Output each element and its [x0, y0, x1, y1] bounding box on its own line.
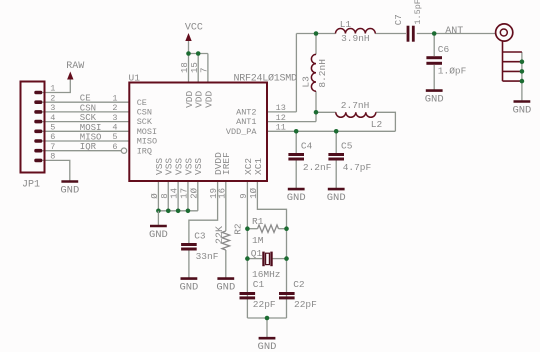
svg-text:3.9nH: 3.9nH	[341, 33, 370, 44]
svg-text:GND: GND	[149, 229, 168, 241]
svg-text:14: 14	[170, 188, 180, 199]
svg-text:C3: C3	[194, 230, 206, 241]
svg-text:MISO: MISO	[137, 137, 157, 147]
svg-text:GND: GND	[216, 282, 235, 294]
svg-text:ANT2: ANT2	[236, 108, 256, 118]
svg-text:GND: GND	[425, 94, 444, 106]
svg-text:8: 8	[160, 193, 170, 198]
svg-text:18: 18	[180, 62, 190, 73]
svg-text:1Ø: 1Ø	[249, 187, 259, 198]
svg-text:CSN: CSN	[137, 108, 152, 118]
svg-text:Ø: Ø	[150, 193, 160, 199]
svg-text:1: 1	[50, 84, 55, 94]
svg-text:C2: C2	[293, 279, 305, 290]
svg-text:22pF: 22pF	[253, 299, 276, 310]
svg-text:XC1: XC1	[253, 158, 264, 175]
svg-text:15: 15	[190, 62, 200, 73]
svg-text:MOSI: MOSI	[80, 123, 102, 133]
svg-text:IRQ: IRQ	[137, 146, 152, 156]
svg-text:SCK: SCK	[80, 113, 97, 123]
svg-text:6: 6	[50, 132, 55, 142]
svg-text:VSS: VSS	[193, 158, 204, 175]
svg-text:7: 7	[50, 142, 55, 152]
svg-text:2: 2	[112, 103, 117, 113]
svg-text:3: 3	[112, 113, 117, 123]
svg-text:VCC: VCC	[185, 22, 203, 33]
svg-text:VDD_PA: VDD_PA	[226, 127, 258, 137]
svg-text:R2: R2	[232, 223, 243, 235]
svg-text:3: 3	[50, 103, 55, 113]
svg-text:R1: R1	[252, 216, 264, 227]
svg-text:22K: 22K	[215, 226, 226, 244]
svg-text:6: 6	[112, 142, 117, 152]
svg-text:GND: GND	[179, 282, 198, 294]
svg-text:CSN: CSN	[80, 103, 96, 113]
svg-text:C1: C1	[253, 279, 265, 290]
svg-text:L1: L1	[340, 19, 352, 30]
svg-text:1.5pF: 1.5pF	[413, 0, 423, 25]
svg-text:SCK: SCK	[137, 117, 153, 127]
svg-text:4: 4	[50, 113, 55, 123]
svg-text:GND: GND	[60, 185, 79, 197]
svg-text:8.2nH: 8.2nH	[317, 59, 328, 88]
svg-text:JP1: JP1	[22, 180, 40, 191]
svg-text:VDD: VDD	[203, 90, 214, 107]
svg-text:1.ØpF: 1.ØpF	[438, 66, 467, 77]
svg-text:IREF: IREF	[221, 152, 232, 175]
svg-text:5: 5	[50, 123, 55, 133]
svg-text:C5: C5	[341, 141, 353, 152]
svg-text:8: 8	[50, 152, 55, 162]
svg-text:MISO: MISO	[80, 133, 102, 143]
svg-text:1M: 1M	[252, 235, 264, 246]
svg-text:GND: GND	[287, 192, 306, 204]
svg-text:CE: CE	[80, 94, 91, 104]
svg-text:GND: GND	[327, 192, 346, 204]
svg-text:Q1: Q1	[251, 248, 263, 259]
svg-text:2Ø: 2Ø	[189, 187, 199, 198]
svg-text:11: 11	[276, 123, 286, 133]
svg-text:RAW: RAW	[66, 61, 84, 72]
svg-text:C7: C7	[394, 14, 404, 25]
svg-text:12: 12	[276, 113, 286, 123]
svg-text:4.7pF: 4.7pF	[343, 162, 372, 173]
svg-text:9: 9	[239, 193, 249, 198]
svg-text:4: 4	[112, 123, 117, 133]
svg-text:C6: C6	[438, 44, 450, 55]
svg-text:2.2nF: 2.2nF	[303, 162, 332, 173]
svg-text:2.7nH: 2.7nH	[341, 100, 370, 111]
svg-text:GND: GND	[512, 105, 531, 117]
svg-text:16: 16	[217, 188, 227, 199]
svg-text:L3: L3	[301, 76, 312, 88]
svg-text:C4: C4	[301, 141, 313, 152]
svg-text:ANT: ANT	[445, 26, 463, 37]
svg-text:7: 7	[200, 68, 210, 73]
svg-text:U1: U1	[129, 72, 141, 83]
svg-text:2: 2	[50, 93, 55, 103]
svg-text:17: 17	[180, 188, 190, 199]
svg-text:5: 5	[112, 132, 117, 142]
svg-text:MOSI: MOSI	[137, 127, 157, 137]
svg-text:L2: L2	[371, 119, 383, 130]
svg-text:GND: GND	[258, 341, 277, 352]
svg-text:IQR: IQR	[80, 142, 97, 152]
svg-text:22pF: 22pF	[294, 299, 317, 310]
svg-text:NRF24LØ1SMD: NRF24LØ1SMD	[234, 73, 298, 85]
svg-text:33nF: 33nF	[196, 251, 219, 262]
svg-text:13: 13	[276, 103, 286, 113]
svg-text:CE: CE	[137, 98, 147, 108]
svg-text:ANT1: ANT1	[236, 117, 256, 127]
svg-text:1: 1	[112, 93, 117, 103]
